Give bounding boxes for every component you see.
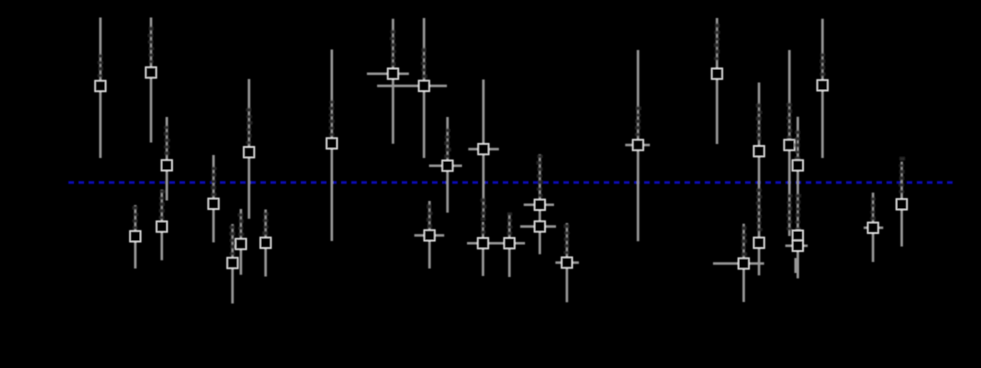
P24 station label text (rotated, mostly hidden) <box>756 189 762 232</box>
P12 station label text (rotated, mostly hidden) <box>390 30 396 66</box>
P3 square marker <box>161 160 172 171</box>
data point P26b: vertical error bar <box>794 258 797 273</box>
P4 square marker <box>130 231 141 242</box>
P28 horizontal error bar <box>864 227 884 230</box>
P1 square marker <box>95 81 106 92</box>
P14 station label text (rotated, mostly hidden) <box>444 129 451 158</box>
P11 station label text (rotated, mostly hidden) <box>329 101 335 136</box>
data point P3: vertical error bar <box>161 117 172 201</box>
data point P9: vertical error bar <box>236 209 247 275</box>
P4 station label text (rotated, mostly hidden) <box>132 206 138 229</box>
data point P28: vertical error bar <box>864 193 884 262</box>
data point P8: vertical error bar <box>227 224 238 304</box>
P22 square marker <box>712 68 723 79</box>
P19 horizontal error bar <box>520 225 556 228</box>
P9 square marker <box>236 239 247 250</box>
P19 square marker <box>534 221 545 232</box>
P16 station label text (rotated, mostly hidden) <box>426 205 432 228</box>
P2 station label text (rotated, mostly hidden) <box>148 27 154 63</box>
P17 square marker <box>478 238 489 249</box>
P16 square marker <box>424 230 435 241</box>
P24 square marker <box>754 237 765 248</box>
P26 horizontal error bar <box>785 245 807 248</box>
P13 horizontal error bar <box>377 85 447 88</box>
P25 square marker <box>784 140 795 151</box>
data point P2: vertical error bar <box>146 18 157 143</box>
data point P21: vertical error bar <box>625 50 650 241</box>
P21 horizontal error bar <box>625 144 650 147</box>
P26 square marker <box>792 160 803 171</box>
data point P10: vertical error bar <box>260 210 271 277</box>
P21 station label text (rotated, mostly hidden) <box>635 107 641 136</box>
data point P27: vertical error bar <box>817 19 828 158</box>
data point P12: vertical error bar <box>367 19 409 144</box>
P28 station label text (rotated, mostly hidden) <box>870 198 875 221</box>
P7 station label text (rotated, mostly hidden) <box>246 108 252 144</box>
data point P16: vertical error bar <box>414 201 444 269</box>
P25 station label text (rotated, mostly hidden) <box>786 103 792 139</box>
data point P24: vertical error bar <box>754 83 765 276</box>
P16 horizontal error bar <box>414 234 444 237</box>
P19 station label text (rotated, mostly hidden) <box>536 155 542 197</box>
data point P14: vertical error bar <box>429 117 462 213</box>
P14 square marker <box>442 160 453 171</box>
P20 square marker <box>562 257 573 268</box>
data point P20: vertical error bar <box>555 223 579 302</box>
P25 station label text (rotated, mostly hidden) <box>787 194 793 230</box>
data point P19: vertical error bar <box>520 154 556 254</box>
data point P13: vertical error bar <box>377 18 447 158</box>
P17 horizontal error bar <box>467 242 500 245</box>
P6 square marker <box>208 198 219 209</box>
P15 station label text (rotated, mostly hidden) <box>481 198 487 215</box>
P26 station label text (rotated, mostly hidden) <box>795 131 800 160</box>
P20 horizontal error bar <box>555 261 579 264</box>
P18 square marker <box>504 238 515 249</box>
data point P15: vertical error bar <box>468 80 499 218</box>
P27 square marker <box>817 80 828 91</box>
P6 station label text (rotated, mostly hidden) <box>211 167 217 196</box>
P13 station label text (rotated, mostly hidden) <box>421 48 427 78</box>
P5 station label text (rotated, mostly hidden) <box>159 190 165 219</box>
blue dashed reference line <box>68 181 952 184</box>
P18 station label text (rotated, mostly hidden) <box>507 212 513 235</box>
P10 square marker <box>260 237 271 248</box>
data point P29: vertical error bar <box>896 157 907 247</box>
P26 square marker <box>792 230 803 241</box>
P13 square marker <box>419 81 430 92</box>
P24 square marker <box>754 146 765 157</box>
P23 horizontal error bar <box>713 262 764 265</box>
P21 square marker <box>633 140 644 151</box>
P27 station label text (rotated, mostly hidden) <box>820 54 826 77</box>
data point P25: vertical error bar <box>784 50 795 236</box>
P14 horizontal error bar <box>429 164 462 167</box>
P29 square marker <box>896 199 907 210</box>
P28 square marker <box>868 222 879 233</box>
P1 station label text (rotated, mostly hidden) <box>98 55 104 78</box>
data point P7: vertical error bar <box>244 79 255 219</box>
P9 station label text (rotated, mostly hidden) <box>238 213 244 236</box>
P12 square marker <box>388 68 399 79</box>
data point P23: vertical error bar <box>713 224 764 302</box>
data point P6: vertical error bar <box>208 155 219 242</box>
data point P17: vertical error bar <box>467 218 500 276</box>
P26 square marker <box>792 240 803 251</box>
P23 station label text (rotated, mostly hidden) <box>741 226 747 256</box>
P19 horizontal error bar <box>524 204 554 207</box>
data point P5: vertical error bar <box>156 190 167 261</box>
P15 horizontal error bar <box>468 148 499 151</box>
P24 station label text (rotated, mostly hidden) <box>756 104 762 140</box>
P8 square marker <box>227 258 238 269</box>
P26 station label text (rotated, mostly hidden) <box>795 194 801 230</box>
P22 station label text (rotated, mostly hidden) <box>714 24 720 60</box>
data point P11: vertical error bar <box>326 50 337 242</box>
data point P4: vertical error bar <box>130 205 141 269</box>
P17 station label text (rotated, mostly hidden) <box>481 218 486 234</box>
P5 square marker <box>156 221 167 232</box>
P15 square marker <box>478 144 489 155</box>
P20 station label text (rotated, mostly hidden) <box>564 224 570 254</box>
data point P18: vertical error bar <box>496 212 525 277</box>
P7 square marker <box>244 147 255 158</box>
P8 station label text (rotated, mostly hidden) <box>230 226 236 255</box>
P10 station label text (rotated, mostly hidden) <box>262 213 268 236</box>
P29 station label text (rotated, mostly hidden) <box>899 157 905 193</box>
P23 square marker <box>738 258 749 269</box>
P19 square marker <box>534 199 545 210</box>
data point P1: vertical error bar <box>95 18 106 159</box>
P18 horizontal error bar <box>496 242 525 245</box>
P11 square marker <box>326 138 337 149</box>
data point P26: vertical error bar <box>785 117 807 279</box>
P3 station label text (rotated, mostly hidden) <box>164 126 170 155</box>
P2 square marker <box>146 67 157 78</box>
data point P22: vertical error bar <box>712 18 723 144</box>
P12 horizontal error bar <box>367 72 409 75</box>
